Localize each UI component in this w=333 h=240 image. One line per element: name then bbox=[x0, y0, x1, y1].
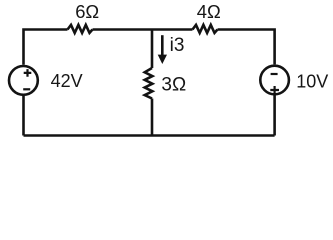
svg-text:42V: 42V bbox=[51, 71, 83, 91]
resistor 4-ohm zigzag bbox=[193, 25, 218, 33]
wire top-left segment (from 42V source top, up and right to 6-ohm resistor) bbox=[24, 30, 68, 65]
resistor 6-ohm zigzag bbox=[68, 25, 93, 33]
svg-text:6Ω: 6Ω bbox=[75, 1, 99, 22]
current arrow i3 (pointing down) bbox=[161, 35, 164, 56]
svg-text:10V: 10V bbox=[296, 72, 328, 92]
voltage source 42V plus sign (top) bbox=[24, 69, 32, 77]
svg-text:i3: i3 bbox=[170, 35, 185, 56]
svg-text:3Ω: 3Ω bbox=[161, 74, 186, 95]
wire left-bottom segment (bottom corner up to 42V source bottom) bbox=[22, 96, 25, 136]
voltage source 42V circle bbox=[9, 66, 38, 95]
wire right-bottom segment (10V source bottom to corner) bbox=[273, 94, 276, 135]
wire middle-top segment (top node down to current arrow / 3-ohm) bbox=[151, 30, 154, 69]
resistor 3-ohm vertical zigzag bbox=[145, 68, 153, 99]
wire top-middle segment (6-ohm to 4-ohm across node) bbox=[93, 28, 193, 31]
voltage source 42V minus sign (bottom) bbox=[23, 88, 30, 90]
wire middle-bottom segment (3-ohm down to bottom wire) bbox=[151, 99, 154, 136]
wire top-right segment (4-ohm to corner, down to 10V source top) bbox=[218, 30, 275, 65]
svg-text:4Ω: 4Ω bbox=[197, 1, 221, 22]
voltage source 10V plus sign (bottom) bbox=[270, 86, 279, 94]
voltage source 10V minus sign (top) bbox=[271, 73, 278, 75]
wire bottom segment bbox=[24, 134, 275, 137]
voltage source 10V circle bbox=[260, 66, 289, 95]
